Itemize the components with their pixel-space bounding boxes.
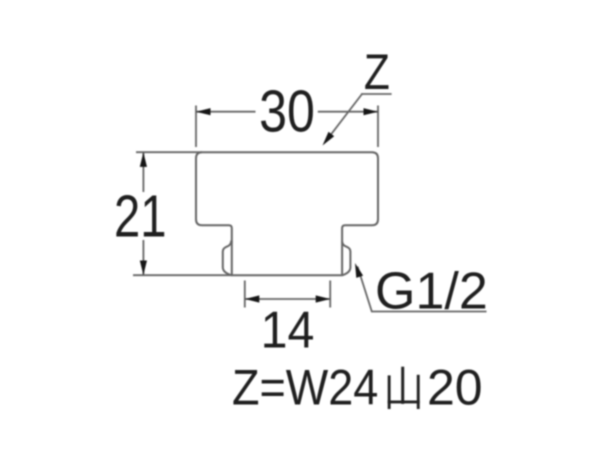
arrow right (30) [364,108,379,115]
G1/2 leader arrowhead [355,263,363,278]
Z leader line [327,94,363,140]
label 30 [259,78,315,145]
extension line left (30) [195,106,197,148]
extension line left (14) [244,281,246,308]
arrow right (14) [316,295,331,302]
label 21 [114,184,166,249]
dimension line 30 [196,111,378,113]
dimension 30 [196,106,378,148]
extension line bottom (21) merged with part bottom edge [133,274,232,276]
svg-text:G1/2: G1/2 [375,263,488,321]
dimension line 21 [142,153,144,275]
thread root line left [231,242,233,276]
thread root line right [341,242,343,276]
arrow bottom (21) [140,261,147,276]
svg-text:Z=W24: Z=W24 [232,360,378,416]
extension line right (30) [377,106,379,148]
label 14 [261,301,315,359]
arrow top (21) [140,152,147,167]
part outline: faucet adapter cross-section [196,152,378,275]
svg-text:30: 30 [259,78,315,145]
extension line top (21) [136,151,202,153]
svg-text:Z: Z [364,44,390,100]
arrow left (30) [196,108,211,115]
Z underline [361,93,392,95]
extension line right (14) [329,281,331,308]
arrow left (14) [245,295,259,302]
bottom note: Z=W24[yama]20 [232,360,378,416]
dimension line 14 [245,298,330,300]
svg-text:14: 14 [261,301,315,359]
label Z (thread callout) [364,44,390,100]
Z leader arrowhead [323,132,335,146]
svg-text:20: 20 [427,360,483,416]
dimension 21 [133,152,232,275]
dimension 14 [245,281,330,308]
svg-text:21: 21 [114,184,166,249]
kanji yama (mountain) glyph drawn as strokes [388,367,420,409]
body outline [196,152,378,275]
G1/2 leader line [358,267,487,312]
